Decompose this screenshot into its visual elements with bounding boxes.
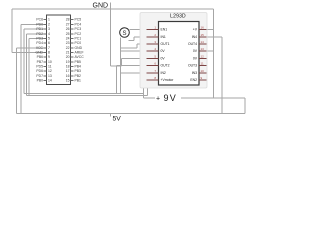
IC U1 ATmega328 body [47, 15, 71, 85]
svg-text:1: 1 [48, 18, 50, 22]
U2 left pin numbers [154, 26, 156, 80]
svg-text:10: 10 [48, 60, 52, 64]
wire PD3 bus vertical [29, 39, 47, 96]
U1 pin stubs right [71, 20, 74, 81]
wire PD2 bus vertical [27, 34, 47, 96]
U2 pin stubs right [199, 30, 207, 81]
svg-text:IN4: IN4 [192, 35, 197, 39]
U1 left pin names [35, 18, 43, 83]
wire battery left vertical from +Vmotor [144, 80, 147, 98]
svg-text:11: 11 [48, 65, 52, 69]
wire battery segment right [181, 98, 245, 114]
svg-text:PD5: PD5 [36, 65, 43, 69]
svg-text:28: 28 [66, 18, 70, 22]
svg-text:PC4: PC4 [75, 23, 82, 27]
svg-text:5V: 5V [113, 116, 122, 123]
svg-text:IN2: IN2 [161, 71, 166, 75]
wire right riser IN4 [221, 37, 223, 114]
wire right GND riser [213, 9, 215, 98]
svg-text:8: 8 [48, 51, 50, 55]
svg-text:PD0: PD0 [36, 23, 43, 27]
wire battery segment left [144, 97, 156, 99]
svg-text:EN1: EN1 [161, 28, 168, 32]
wire GND label vertical [111, 3, 122, 67]
svg-text:16: 16 [66, 74, 70, 78]
svg-text:PB7: PB7 [37, 60, 44, 64]
svg-text:0V: 0V [161, 49, 166, 53]
svg-text:PD1: PD1 [36, 27, 43, 31]
svg-text:IN3: IN3 [192, 71, 197, 75]
svg-text:OUT1: OUT1 [161, 42, 170, 46]
wire EN1 motor right horizontal [130, 29, 147, 31]
svg-text:0V: 0V [193, 49, 198, 53]
svg-text:GND: GND [75, 46, 83, 50]
IC U2 L293D part background [140, 13, 207, 89]
svg-text:PC2: PC2 [75, 32, 82, 36]
svg-text:6: 6 [48, 41, 50, 45]
wire rail A y93.6 [24, 93, 144, 95]
svg-text:22: 22 [66, 46, 70, 50]
svg-text:GND: GND [93, 3, 109, 10]
svg-text:PC6: PC6 [36, 18, 43, 22]
svg-text:17: 17 [66, 69, 70, 73]
svg-text:14: 14 [48, 79, 52, 83]
U2 pin stubs left [147, 30, 159, 81]
svg-text:2: 2 [48, 23, 50, 27]
svg-text:L293D: L293D [170, 14, 186, 20]
svg-text:23: 23 [66, 41, 70, 45]
U2 body [159, 22, 200, 86]
svg-text:PD6: PD6 [36, 69, 43, 73]
wire IN4 pin15 horizontal [207, 36, 223, 38]
wire 5V label stub [110, 114, 112, 117]
wire top GND rail [12, 3, 245, 117]
svg-text:VCC: VCC [36, 46, 44, 50]
svg-text:3: 3 [48, 27, 50, 31]
svg-text:18: 18 [66, 65, 70, 69]
svg-text:10: 10 [201, 69, 205, 73]
U2 right pin labels [188, 28, 198, 82]
U1 pin stubs left [44, 20, 47, 81]
svg-text:13: 13 [48, 74, 52, 78]
wire PD0 bus vertical [21, 25, 47, 114]
svg-text:OUT2: OUT2 [161, 64, 170, 68]
svg-text:15: 15 [66, 79, 70, 83]
svg-text:16: 16 [201, 26, 205, 30]
U1 right pin names [75, 18, 85, 83]
svg-text:IN1: IN1 [161, 35, 166, 39]
svg-text:19: 19 [66, 60, 70, 64]
wire rail B right riser [147, 81, 149, 96]
svg-text:PB4: PB4 [75, 65, 82, 69]
wire rail B y95.6 [27, 95, 148, 97]
motor M1 circle [120, 28, 130, 38]
svg-text:PC1: PC1 [75, 37, 82, 41]
svg-text:11: 11 [201, 62, 204, 66]
wire +V pin16 horizontal [207, 29, 214, 31]
wire PD1 bus vertical [24, 29, 47, 94]
wire outer bottom rail [17, 113, 246, 115]
svg-text:27: 27 [66, 23, 70, 27]
wire OUT2 horizontal [117, 66, 147, 94]
svg-text:+V: +V [193, 28, 198, 32]
svg-text:PD4: PD4 [36, 41, 43, 45]
svg-text:25: 25 [66, 32, 70, 36]
svg-text:PD3: PD3 [36, 37, 43, 41]
svg-text:AVCC: AVCC [75, 55, 85, 59]
svg-text:20: 20 [66, 55, 70, 59]
wire 0V pin5 horizontal [122, 58, 147, 60]
svg-text:7: 7 [48, 46, 50, 50]
svg-text:PB2: PB2 [75, 74, 82, 78]
wire left border vertical [11, 9, 13, 53]
U2 left pin labels [161, 28, 175, 82]
wire IN1 jog [129, 37, 147, 41]
svg-text:21: 21 [66, 51, 70, 55]
svg-text:EN2: EN2 [190, 78, 197, 82]
svg-text:0V: 0V [193, 57, 198, 61]
svg-text:OUT3: OUT3 [188, 64, 197, 68]
wire motor bottom vertical [120, 38, 122, 94]
wire IN2 horizontal [121, 72, 147, 74]
svg-text:4: 4 [48, 32, 50, 36]
svg-text:5: 5 [48, 37, 50, 41]
svg-text:PD7: PD7 [36, 74, 43, 78]
svg-text:26: 26 [66, 27, 70, 31]
svg-text:+Vmotor: +Vmotor [161, 78, 175, 82]
wire OUT1 staircase [121, 44, 147, 48]
wire VCC pin7 bus [17, 48, 47, 114]
U1 right pin numbers [66, 18, 70, 83]
svg-text:PB6: PB6 [37, 55, 44, 59]
svg-text:+: + [156, 96, 160, 103]
wire 0V pin4 horizontal [121, 50, 147, 52]
U2 right pin numbers [201, 26, 205, 80]
svg-text:GND: GND [35, 51, 43, 55]
svg-text:PD2: PD2 [36, 32, 43, 36]
svg-text:15: 15 [201, 33, 205, 37]
svg-text:OUT4: OUT4 [188, 42, 197, 46]
svg-text:24: 24 [66, 37, 70, 41]
svg-text:PB0: PB0 [37, 79, 44, 83]
svg-text:PB3: PB3 [75, 69, 82, 73]
U1 left pin numbers [48, 18, 52, 83]
svg-text:0V: 0V [161, 57, 166, 61]
wire 0V pin13 horizontal [207, 50, 214, 52]
svg-text:S: S [122, 31, 126, 37]
svg-text:13: 13 [201, 47, 205, 51]
svg-text:PC3: PC3 [75, 27, 82, 31]
svg-text:12: 12 [201, 55, 205, 59]
svg-text:PB1: PB1 [75, 79, 82, 83]
svg-text:PB5: PB5 [75, 60, 82, 64]
svg-text:PC5: PC5 [75, 18, 82, 22]
svg-text:9: 9 [48, 55, 50, 59]
svg-text:PC0: PC0 [75, 41, 82, 45]
svg-text:AREF: AREF [75, 51, 84, 55]
svg-text:12: 12 [48, 69, 52, 73]
wire GND pin8 horizontal [12, 52, 47, 54]
svg-text:9V: 9V [164, 93, 177, 103]
svg-text:14: 14 [201, 40, 205, 44]
